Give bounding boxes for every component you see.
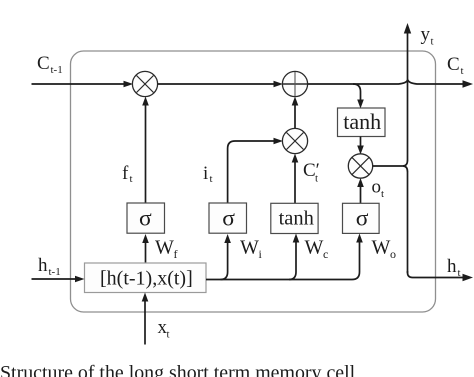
svg-text:t: t <box>431 36 434 48</box>
svg-text:t: t <box>315 173 318 185</box>
svg-text:W: W <box>305 237 324 259</box>
wire: h(t-1) input arrow <box>32 276 85 283</box>
weight label Wc <box>305 237 329 262</box>
svg-text:W: W <box>155 237 174 259</box>
wire: branch from cell line down into output tanh <box>353 84 364 109</box>
svg-text:σ: σ <box>139 205 152 231</box>
svg-text:C: C <box>447 54 460 75</box>
svg-text:t-1: t-1 <box>49 266 61 278</box>
svg-text:t-1: t-1 <box>51 64 63 76</box>
svg-text:C: C <box>37 53 50 74</box>
svg-text:h: h <box>447 256 457 277</box>
sigma box (input gate) <box>209 203 247 233</box>
svg-text:f: f <box>174 247 178 261</box>
svg-text:tanh: tanh <box>343 109 381 134</box>
node o(t) label <box>372 177 385 201</box>
node C(t) label <box>447 54 464 77</box>
wire: cell line adder to output, with hop over y wire <box>308 80 474 88</box>
svg-text:σ: σ <box>356 205 369 231</box>
wire: X3 output joining vertical output wire <box>373 160 408 171</box>
wire: forget gate feed from concat box top <box>142 234 149 263</box>
adder (plus) <box>282 71 307 96</box>
svg-text:o: o <box>372 177 382 198</box>
svg-text:t: t <box>167 329 170 341</box>
node C(t-1) label <box>37 53 63 76</box>
svg-text:σ: σ <box>222 205 235 231</box>
svg-text:tanh: tanh <box>279 207 314 229</box>
node y(t) label <box>421 24 434 48</box>
multiplier X3 (output gate product) <box>348 154 372 178</box>
sigma box (output gate) <box>343 203 380 233</box>
svg-text:W: W <box>240 237 259 259</box>
caption text <box>0 362 356 377</box>
svg-text:i: i <box>203 163 208 184</box>
wire: tanh to X3 <box>357 137 364 155</box>
wire: output gate sigma up into X3 <box>357 178 364 203</box>
weight label Wi <box>240 237 263 262</box>
wire: X2 to adder <box>292 97 299 129</box>
tanh box (cell output squash) <box>338 108 386 137</box>
svg-text:c: c <box>323 247 328 261</box>
svg-text:o: o <box>390 247 396 261</box>
wire: candidate tanh up into X2 <box>292 154 299 204</box>
wire: x(t) input arrow <box>142 293 149 345</box>
svg-text:i: i <box>259 247 263 261</box>
wire: vertical output wire to y(t) and h(t) <box>404 23 473 281</box>
wire: forget gate sigma up into X1 <box>142 97 149 204</box>
svg-text:t: t <box>381 188 384 200</box>
wire: input gate sigma up and over into X2 <box>228 138 283 203</box>
node h(t-1) label <box>38 255 61 278</box>
wire: cell line X1 to adder <box>158 81 284 88</box>
concat box [h(t-1),x(t)] <box>85 263 207 293</box>
wire: cell-state input line <box>32 81 134 88</box>
tanh box (candidate) <box>271 203 318 233</box>
wire: concat feed line to gates with branch ups <box>206 234 363 280</box>
weight label Wo <box>372 237 397 262</box>
svg-text:t: t <box>461 65 464 77</box>
node x(t) label <box>158 317 170 341</box>
weight label Wf <box>155 237 178 262</box>
svg-text:t: t <box>210 173 213 185</box>
node f(t) label <box>122 163 133 185</box>
multiplier X2 (input gate product) <box>282 128 307 153</box>
svg-text:t: t <box>458 267 461 279</box>
svg-text:t: t <box>130 173 133 185</box>
svg-text:f: f <box>122 163 129 184</box>
svg-text:y: y <box>421 24 431 45</box>
node C'(t) label <box>303 160 320 185</box>
svg-text:[h(t-1),x(t)]: [h(t-1),x(t)] <box>100 268 193 290</box>
multiplier X1 (forget gate product) <box>132 71 157 96</box>
sigma box (forget gate) <box>127 203 165 233</box>
node h(t) label <box>447 256 461 279</box>
node i(t) label <box>203 163 213 185</box>
svg-text:W: W <box>372 237 391 259</box>
svg-text:h: h <box>38 255 48 276</box>
outer cell boundary <box>71 51 436 312</box>
svg-text:Structure of the long short te: Structure of the long short term memory … <box>0 362 356 377</box>
